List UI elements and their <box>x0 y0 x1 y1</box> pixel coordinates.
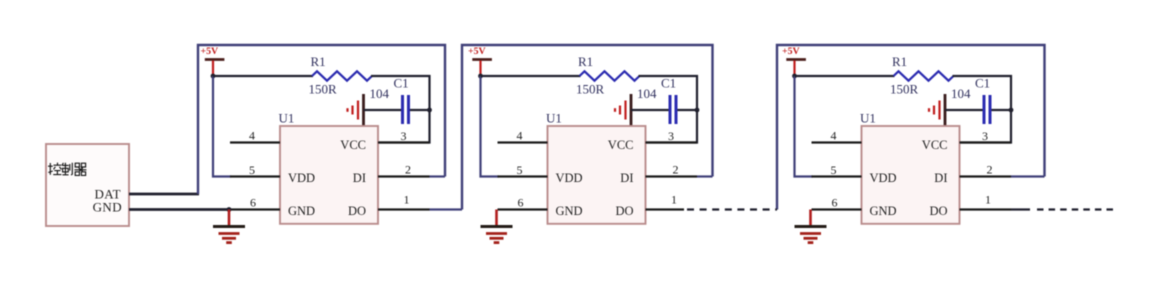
svg-text:C1: C1 <box>661 76 676 91</box>
svg-text:GND: GND <box>556 204 583 218</box>
wire +5V rail left of R1 stage 2 <box>481 75 581 77</box>
wire DO stage1 to stage2 loop <box>430 208 463 210</box>
svg-text:U1: U1 <box>860 111 876 126</box>
svg-text:1: 1 <box>404 193 410 207</box>
wire ground to C1 stage 3 <box>945 109 983 111</box>
power +5V symbol stage 2 <box>472 58 492 61</box>
svg-text:C1: C1 <box>394 76 409 91</box>
svg-text:6: 6 <box>250 196 256 210</box>
wire DI to loop stage 1 <box>430 175 446 177</box>
svg-text:5: 5 <box>249 163 255 177</box>
wire C1 to +5V corner stage 3 <box>992 109 1012 111</box>
wire data-loop rectangle stage 1 <box>198 45 445 194</box>
svg-text:DI: DI <box>620 171 633 185</box>
wire DO stage2 dashed continuation <box>687 208 777 210</box>
capacitor C1 stage 2 <box>669 95 672 124</box>
wire R1 to VCC corner stage 2 <box>639 76 698 143</box>
svg-text:GND: GND <box>870 204 897 218</box>
svg-text:150R: 150R <box>576 82 605 97</box>
pin 2 stub (DI) stage 1 <box>378 175 430 177</box>
ground symbol at C1 (rotated) stage 2 <box>630 94 633 126</box>
svg-text:DO: DO <box>929 204 947 218</box>
ground symbol at C1 (rotated) stage 1 <box>362 94 365 126</box>
pin 4 stub stage 2 <box>498 141 548 143</box>
svg-text:VDD: VDD <box>556 171 583 185</box>
op-amp/IC U1 stage 3 <box>862 126 960 224</box>
wire data-loop rectangle stage 3 <box>777 45 1045 210</box>
pin 6 stub (GND) stage 1 <box>230 208 280 210</box>
junction C1 rail stage 2 <box>695 108 700 113</box>
svg-text:4: 4 <box>517 129 523 143</box>
capacitor C1 stage 3 <box>983 95 986 124</box>
svg-text:1: 1 <box>671 193 677 207</box>
svg-text:5: 5 <box>517 163 523 177</box>
svg-text:104: 104 <box>951 86 971 101</box>
pin 5 stub (VDD) stage 1 <box>230 175 280 177</box>
svg-text:R1: R1 <box>892 54 907 69</box>
pin 2 stub (DI) stage 2 <box>646 175 698 177</box>
wire +5V branch down to VDD pin stage 3 <box>795 76 813 177</box>
junction C1 rail stage 1 <box>427 108 432 113</box>
svg-text:DO: DO <box>615 204 633 218</box>
svg-text:6: 6 <box>832 196 838 210</box>
pin 3 stub (VCC) stage 3 <box>960 141 1012 143</box>
wire +5V rail left of R1 stage 3 <box>795 75 895 77</box>
junction +5V rail stage 3 <box>792 74 797 79</box>
svg-text:2: 2 <box>405 163 411 177</box>
pin 6 stub (GND) stage 2 <box>498 208 548 210</box>
svg-text:VDD: VDD <box>288 171 315 185</box>
op-amp/IC U1 stage 2 <box>548 126 646 224</box>
pin 5 stub (VDD) stage 2 <box>498 175 548 177</box>
resistor R1 stage 2 <box>580 71 640 80</box>
svg-text:GND: GND <box>93 200 122 215</box>
ground symbol stage 1 <box>228 210 231 227</box>
svg-text:C1: C1 <box>975 76 990 91</box>
junction GND wire stage 1 <box>227 207 232 212</box>
pin 1 stub (DO) stage 2 <box>646 208 685 210</box>
svg-text:R1: R1 <box>311 54 326 69</box>
svg-text:DI: DI <box>934 171 947 185</box>
wire DO stage3 dashed continuation <box>1037 208 1113 210</box>
ground symbol at C1 (rotated) stage 3 <box>944 94 947 126</box>
wire data-loop rectangle stage 2 <box>462 45 713 210</box>
svg-text:6: 6 <box>518 196 524 210</box>
svg-text:U1: U1 <box>546 111 562 126</box>
wire DI to loop stage 3 <box>1011 175 1045 177</box>
wire C1 to +5V corner stage 1 <box>410 109 430 111</box>
wire DO stage3 solid <box>1011 208 1030 210</box>
svg-text:GND: GND <box>288 204 315 218</box>
pin 5 stub (VDD) stage 3 <box>812 175 862 177</box>
svg-text:104: 104 <box>637 86 657 101</box>
svg-text:DO: DO <box>348 204 366 218</box>
pin 4 stub stage 3 <box>812 141 862 143</box>
pin 6 stub (GND) stage 3 <box>812 208 862 210</box>
svg-text:3: 3 <box>401 129 407 143</box>
pin 1 stub (DO) stage 3 <box>960 208 1012 210</box>
svg-text:150R: 150R <box>309 82 338 97</box>
wire +5V branch down to VDD pin stage 2 <box>481 76 499 177</box>
pin 4 stub stage 1 <box>230 141 280 143</box>
svg-text:VDD: VDD <box>870 171 897 185</box>
svg-text:3: 3 <box>668 129 674 143</box>
svg-text:2: 2 <box>987 163 993 177</box>
resistor R1 stage 3 <box>894 71 954 80</box>
svg-text:+5V: +5V <box>201 46 219 57</box>
svg-text:2: 2 <box>673 163 679 177</box>
svg-text:4: 4 <box>249 129 255 143</box>
svg-text:1: 1 <box>985 193 991 207</box>
svg-text:+5V: +5V <box>468 46 486 57</box>
svg-text:+5V: +5V <box>782 46 800 57</box>
pin 2 stub (DI) stage 3 <box>960 175 1012 177</box>
wire DI to loop stage 2 <box>697 175 713 177</box>
svg-text:U1: U1 <box>279 111 295 126</box>
power +5V symbol stage 3 <box>786 58 806 61</box>
svg-text:5: 5 <box>831 163 837 177</box>
wire ground to C1 stage 2 <box>631 109 669 111</box>
svg-text:104: 104 <box>370 86 390 101</box>
wire +5V branch down to VDD pin stage 1 <box>213 76 231 177</box>
svg-text:3: 3 <box>982 129 988 143</box>
power +5V symbol stage 1 <box>205 58 225 61</box>
svg-text:VCC: VCC <box>340 138 366 152</box>
controller label (CJK 控制器) <box>48 163 61 175</box>
wire C1 to +5V corner stage 2 <box>678 109 698 111</box>
wire +5V rail left of R1 stage 1 <box>213 75 313 77</box>
ground symbol stage 3 <box>809 210 812 227</box>
wire DAT from controller to stage1 loop <box>129 193 199 196</box>
svg-text:VCC: VCC <box>922 138 948 152</box>
svg-text:DI: DI <box>353 171 366 185</box>
pin 3 stub (VCC) stage 2 <box>646 141 698 143</box>
wire ground to C1 stage 1 <box>364 109 402 111</box>
pin 3 stub (VCC) stage 1 <box>378 141 430 143</box>
capacitor C1 stage 1 <box>401 95 404 124</box>
wire R1 to VCC corner stage 3 <box>953 76 1012 143</box>
junction +5V rail stage 1 <box>211 74 216 79</box>
op-amp/IC U1 stage 1 <box>280 126 378 224</box>
ground symbol stage 2 <box>495 210 498 227</box>
svg-text:VCC: VCC <box>608 138 634 152</box>
svg-text:R1: R1 <box>578 54 593 69</box>
junction +5V rail stage 2 <box>478 74 483 79</box>
junction C1 rail stage 3 <box>1009 108 1014 113</box>
wire GND from controller to U1 pin6 <box>129 208 231 211</box>
svg-text:4: 4 <box>831 129 837 143</box>
svg-text:150R: 150R <box>890 82 919 97</box>
wire R1 to VCC corner stage 1 <box>371 76 430 143</box>
controller box 控制器 <box>46 144 129 226</box>
pin 1 stub (DO) stage 1 <box>378 208 430 210</box>
resistor R1 stage 1 <box>312 71 372 80</box>
